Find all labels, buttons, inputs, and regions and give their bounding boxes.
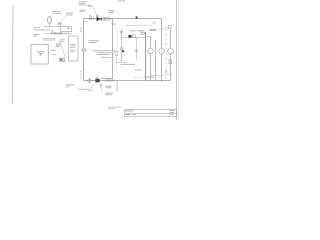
label pressure note xyxy=(80,10,86,12)
label see note xyxy=(121,63,136,66)
label note small xyxy=(61,39,65,42)
wire burner drop xyxy=(116,80,118,92)
node tick on drop xyxy=(135,50,137,51)
label above title block xyxy=(108,107,121,110)
panel box B1 xyxy=(31,45,48,65)
flow switch FS-1 oval xyxy=(47,17,51,24)
underline title xyxy=(43,39,56,41)
label pilot rows xyxy=(66,84,89,89)
leader SV xyxy=(108,13,111,17)
igniter inner mark xyxy=(60,59,62,61)
label above lower line xyxy=(144,76,154,79)
valve V9 circle xyxy=(106,17,109,20)
label relay row xyxy=(129,29,143,32)
wire terminal link xyxy=(117,55,127,62)
leader to C xyxy=(156,27,168,30)
lamp L3 xyxy=(168,48,174,54)
label s-1 small xyxy=(52,50,55,55)
label inside B1 eagle xyxy=(37,51,45,55)
label project rows top xyxy=(79,1,91,5)
solenoid drop SOL xyxy=(120,29,122,39)
leader main gas xyxy=(93,7,98,17)
leader typ xyxy=(158,74,169,76)
DCS panel left edge xyxy=(112,19,114,79)
terminal box xyxy=(115,52,118,56)
right page edge faint xyxy=(178,0,180,120)
label dash typ xyxy=(150,74,158,76)
wire lamp line 1 dark xyxy=(145,33,147,80)
label top corner xyxy=(119,0,125,2)
relay contact dark xyxy=(122,50,124,52)
valve V11 bowtie xyxy=(111,79,114,81)
wire riser down xyxy=(83,19,85,81)
wire lamp line 3 xyxy=(155,40,157,81)
arrow vent xyxy=(80,27,82,31)
node tick line B xyxy=(67,32,69,35)
wire stub parallel xyxy=(84,21,87,23)
label burner panel title xyxy=(43,38,56,39)
component igniter box dark xyxy=(60,58,65,62)
right page border xyxy=(176,0,178,120)
wire line B xyxy=(44,32,73,34)
wire dotted lower xyxy=(116,64,118,80)
wire K row drop xyxy=(135,38,137,61)
valve PV circle xyxy=(88,78,92,83)
wire main gas line xyxy=(84,18,162,20)
left binder line xyxy=(11,6,14,104)
node S1 circle xyxy=(56,43,60,47)
DCS panel bottom edge xyxy=(101,78,113,80)
title cell texts xyxy=(125,110,175,115)
leader valve label xyxy=(99,84,103,92)
label dash small xyxy=(88,89,94,92)
label TS-1 row2 xyxy=(34,29,50,32)
wire dash-dot horizontal xyxy=(134,76,161,78)
DCS panel right edge xyxy=(161,19,163,83)
node X tick xyxy=(170,74,172,76)
valve V7 bowtie xyxy=(93,18,95,20)
label terminal rows xyxy=(93,50,116,58)
wire dotted drop xyxy=(116,28,118,50)
node ticks xyxy=(110,18,111,21)
title block outer xyxy=(125,110,177,117)
wire lamp line 4 xyxy=(170,29,172,80)
valve V5 xyxy=(60,32,63,35)
label valve rows xyxy=(105,86,114,96)
leader B1 to node xyxy=(48,46,57,54)
svg-text:(Sequence DCS with S-1): (Sequence DCS with S-1) xyxy=(126,24,152,27)
valve V3 xyxy=(54,32,57,35)
wire line A xyxy=(45,26,61,28)
leader to valve V1 xyxy=(61,16,66,22)
label MAIN GAS xyxy=(88,6,93,7)
valve V1 gate on line A xyxy=(58,22,62,27)
leader pilot label xyxy=(89,84,94,91)
label TS-1 row1 xyxy=(34,26,41,29)
label SV row1 xyxy=(108,10,115,13)
lamp L2 xyxy=(159,48,165,54)
component igniter ticks xyxy=(100,83,102,88)
valve SSV dark xyxy=(96,15,102,21)
flow switch FS-1 label xyxy=(52,11,61,14)
component damper box xyxy=(169,60,172,64)
PSV top circle xyxy=(96,77,98,79)
label inside B3 xyxy=(71,44,76,52)
valve V8 circle xyxy=(103,17,106,20)
valve PSV dark xyxy=(95,79,99,83)
valve V1 label xyxy=(66,13,73,16)
label above lamps xyxy=(140,30,155,35)
wire oval stem xyxy=(48,23,50,26)
valve V10 bowtie xyxy=(106,79,109,81)
wire relay row xyxy=(122,37,146,39)
regulator box A xyxy=(61,27,72,32)
relay K1 dark xyxy=(128,35,131,38)
leader to flow switch xyxy=(50,14,53,17)
wire dash-dot line xyxy=(165,29,167,81)
label right small xyxy=(150,22,157,29)
component C box xyxy=(169,25,172,28)
bracket marks xyxy=(111,53,115,58)
label normally row1 xyxy=(34,33,41,36)
node top tick dark xyxy=(144,32,146,33)
leader long diagonal xyxy=(59,40,65,57)
lamp L1 xyxy=(148,48,153,53)
label note3 xyxy=(135,69,142,72)
node circleX on riser xyxy=(81,48,87,52)
valve V6 bowtie+circle xyxy=(89,16,92,20)
node tick dashdot xyxy=(165,71,167,72)
relay K2 box xyxy=(132,35,135,38)
node GM dark tick xyxy=(136,16,138,18)
solenoid lower run SOL2 xyxy=(120,41,122,61)
wire corner stub xyxy=(146,36,151,38)
valve V5b small xyxy=(64,33,66,35)
label A in box xyxy=(67,28,69,29)
valve V2 xyxy=(51,30,53,34)
valve V4 bowtie xyxy=(58,32,60,34)
node stub L1 xyxy=(146,50,149,52)
wire lower gas line xyxy=(84,80,171,82)
component dotted igniter lead xyxy=(80,71,82,78)
svg-text:NC: NC xyxy=(113,23,117,26)
label vent small xyxy=(88,40,99,43)
train box B3 xyxy=(69,36,79,61)
label normally row2 xyxy=(34,35,38,38)
node line A end tick xyxy=(44,26,46,28)
wire lamp line 2 xyxy=(150,37,152,81)
